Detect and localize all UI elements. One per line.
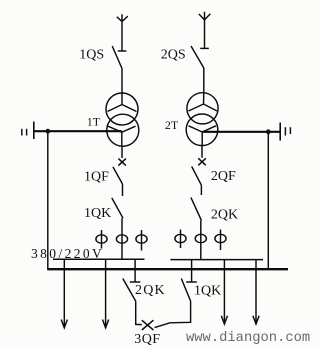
circuit breaker 3QF cross <box>142 320 154 330</box>
feeder wire 4 <box>255 260 257 324</box>
svg-text:2QK: 2QK <box>135 283 166 298</box>
current transformer CT1a <box>101 230 103 249</box>
feeder arrow 4 <box>253 316 259 324</box>
tie switch 2QK fixed-contact tick <box>130 281 141 283</box>
switch 2QK blade <box>191 197 202 220</box>
disconnector 2QS blade <box>191 46 204 68</box>
wire: 2T to breaker cross <box>201 146 203 158</box>
feeder wire 3 <box>223 260 225 324</box>
wire: right supply drop to 2QS <box>204 20 206 49</box>
transformer 2T primary winding chevron <box>189 93 218 111</box>
junction: left LV node <box>45 129 50 134</box>
breaker cross symbol (2T LV) <box>198 158 206 165</box>
wire: 2QK pivot down and right to 3QF <box>136 301 142 324</box>
circuit breaker 2QF blade <box>192 167 202 186</box>
feeder arrow 1 <box>61 320 67 328</box>
transformer 2T secondary winding circle <box>186 114 218 146</box>
breaker cross symbol (1T LV) <box>118 159 126 166</box>
transformer 1T secondary winding circle <box>107 114 139 146</box>
wire: 2QS to transformer 2T <box>203 68 205 93</box>
current transformer CT1c <box>141 230 143 251</box>
circuit breaker 1QF blade <box>113 167 123 184</box>
svg-text:2QF: 2QF <box>211 169 236 184</box>
wire: 1QK pivot down and left to 3QF <box>155 301 191 328</box>
wire: bus-tie left drop <box>134 259 136 282</box>
svg-text:2QK: 2QK <box>211 208 238 223</box>
tie switch 1QK fixed-contact tick <box>186 281 197 283</box>
wire: right LV tie (thick) <box>202 131 280 133</box>
wire: bus-tie right drop <box>191 260 193 282</box>
transformer 1T secondary Y symbol <box>108 126 136 146</box>
svg-text:2QS: 2QS <box>161 48 186 63</box>
wire: 1QK through CT to left header <box>121 218 123 259</box>
incoming overhead line symbol (left supply) <box>117 14 128 21</box>
wire: left supply drop to 1QS <box>121 22 123 52</box>
feeder wire 1 <box>63 259 65 328</box>
busbar 380/220V <box>47 268 288 270</box>
wire: right node down to busbar <box>267 132 269 269</box>
svg-text:www.diangon.com: www.diangon.com <box>186 330 310 346</box>
transformer 2T secondary Y symbol <box>189 126 217 146</box>
feeder arrow 3 <box>221 316 227 324</box>
wire: 1QF to 1QK <box>122 184 124 196</box>
tie switch 2QK blade <box>123 279 136 302</box>
tie switch 1QK blade <box>181 279 190 302</box>
feeder arrow 2 <box>103 320 109 328</box>
left external-source bar symbol <box>33 122 35 140</box>
svg-text:3QF: 3QF <box>134 332 160 347</box>
wire: left node down to busbar <box>47 131 49 269</box>
transformer 1T primary winding circle <box>106 93 138 125</box>
disconnector 1QS fixed-contact tick <box>118 50 127 52</box>
svg-text:1QF: 1QF <box>84 169 109 184</box>
incoming overhead line symbol (right supply) <box>199 12 211 20</box>
transformer 2T primary winding circle <box>187 93 218 124</box>
transformer 1T primary winding chevron <box>108 94 137 112</box>
junction: right LV node <box>266 129 271 134</box>
left distribution header <box>53 258 145 260</box>
feeder wire 2 <box>105 259 107 328</box>
wire: 2QF to 2QK <box>200 185 202 195</box>
disconnector 2QS fixed-contact tick <box>200 47 209 49</box>
current transformer CT2a <box>180 230 182 249</box>
current transformer CT2b <box>195 234 206 242</box>
svg-text:1QK: 1QK <box>194 284 221 299</box>
right distribution header <box>170 259 263 261</box>
current transformer CT2c <box>220 230 222 251</box>
svg-text:1QK: 1QK <box>84 206 111 221</box>
wire: left LV tie (thick) <box>35 130 122 132</box>
disconnector 1QS blade <box>112 46 122 69</box>
svg-text:1T: 1T <box>87 115 101 129</box>
switch 1QK blade <box>112 198 123 218</box>
wire: 1T to breaker cross <box>121 146 123 158</box>
wire: 2QK through CT to right header <box>200 220 202 259</box>
svg-text:2T: 2T <box>165 118 179 132</box>
current transformer CT1b <box>116 235 127 243</box>
wire: 1QS to transformer 1T <box>121 69 123 94</box>
svg-text:380/220V: 380/220V <box>31 246 104 261</box>
right external-source bar symbol <box>279 123 281 141</box>
svg-text:1QS: 1QS <box>79 47 104 62</box>
